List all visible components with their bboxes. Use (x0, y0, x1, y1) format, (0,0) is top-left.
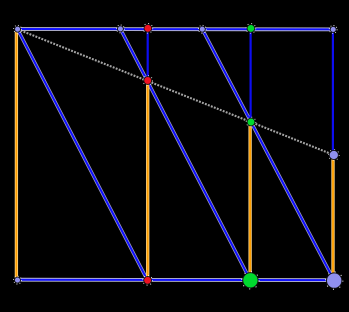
orange vertical from violet point to big blue point (331, 155, 334, 281)
orange vertical from green mid to big green point (248, 122, 251, 280)
blue vertical stub from green top to green mid (250, 28, 252, 122)
bottom horizontal segment (18, 278, 335, 282)
diagonal segment 2 from C to big green point (120, 29, 250, 280)
point red mid intersection (143, 76, 153, 86)
diagonal segment 3 from D to big blue point (202, 29, 334, 280)
point E violet on right edge (329, 150, 340, 161)
point big blue bottom (326, 272, 343, 289)
blue vertical stub from red top to red mid (147, 28, 149, 80)
dashed gray transversal line from A to point E (18, 29, 334, 155)
left orange vertical segment (15, 29, 18, 280)
point bottom-left small blue (14, 276, 22, 284)
top horizontal segment AB (18, 27, 334, 31)
blue vertical from B to violet point (332, 30, 334, 156)
point green mid intersection (246, 117, 256, 127)
point C small blue on top edge (117, 25, 125, 33)
point green top (246, 24, 256, 34)
point B top-right small blue (329, 26, 337, 34)
orange vertical from red mid to red bottom (146, 81, 149, 281)
point red top (143, 24, 153, 34)
point D small blue on top edge (198, 25, 206, 33)
diagonal segment 1 from A to bottom red point (18, 29, 148, 280)
point red bottom (143, 276, 153, 286)
point big green bottom (242, 272, 259, 289)
point A top-left small blue (14, 25, 22, 33)
